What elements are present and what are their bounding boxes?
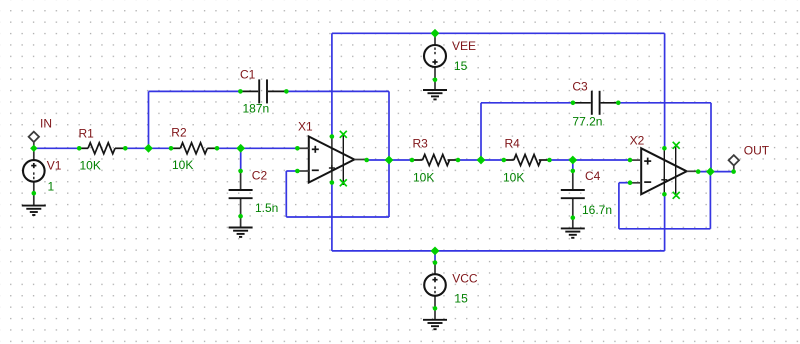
svg-text:C3: C3: [572, 80, 588, 94]
svg-text:VEE: VEE: [452, 39, 476, 53]
svg-text:10K: 10K: [503, 171, 524, 185]
svg-text:X2: X2: [630, 134, 645, 148]
svg-text:VCC: VCC: [452, 272, 478, 286]
svg-text:10K: 10K: [80, 159, 101, 173]
svg-text:187n: 187n: [243, 102, 270, 116]
svg-text:C4: C4: [585, 169, 601, 183]
svg-text:77.2n: 77.2n: [572, 115, 602, 129]
svg-text:V1: V1: [47, 159, 62, 173]
svg-text:R2: R2: [171, 126, 187, 140]
svg-text:10K: 10K: [413, 171, 434, 185]
svg-text:C1: C1: [240, 68, 256, 82]
svg-text:1.5n: 1.5n: [255, 201, 278, 215]
svg-text:R1: R1: [79, 127, 95, 141]
svg-text:R4: R4: [505, 137, 521, 151]
svg-text:IN: IN: [40, 117, 52, 131]
svg-text:R3: R3: [413, 137, 429, 151]
svg-text:C2: C2: [252, 169, 268, 183]
svg-text:16.7n: 16.7n: [582, 203, 612, 217]
svg-text:15: 15: [454, 292, 468, 306]
svg-text:OUT: OUT: [744, 144, 770, 158]
svg-text:1: 1: [48, 180, 55, 194]
svg-text:10K: 10K: [172, 158, 193, 172]
svg-text:X1: X1: [298, 120, 313, 134]
svg-text:15: 15: [454, 59, 468, 73]
